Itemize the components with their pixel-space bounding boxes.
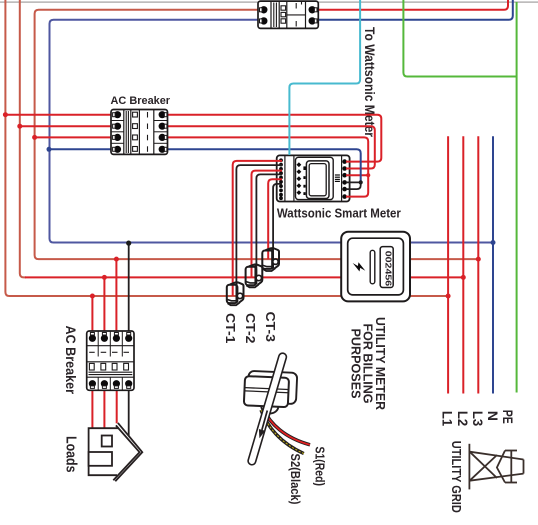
svg-text:To Wattsonic Meter: To Wattsonic Meter <box>362 27 377 138</box>
svg-text:UTILITY GRID: UTILITY GRID <box>449 441 464 513</box>
svg-text:AC Breaker: AC Breaker <box>63 326 78 395</box>
svg-text:CT-2: CT-2 <box>243 313 258 344</box>
svg-text:Wattsonic Smart Meter: Wattsonic Smart Meter <box>277 207 401 221</box>
svg-text:002456: 002456 <box>383 251 393 287</box>
svg-text:AC Breaker: AC Breaker <box>111 95 171 107</box>
svg-text:L2: L2 <box>455 411 470 426</box>
svg-text:CT-1: CT-1 <box>223 313 238 344</box>
svg-text:S2(Black): S2(Black) <box>288 454 303 505</box>
svg-text:CT-3: CT-3 <box>263 312 278 343</box>
svg-text:L1: L1 <box>440 411 455 427</box>
svg-text:S1(Red): S1(Red) <box>312 447 327 487</box>
svg-text:PE: PE <box>500 410 515 424</box>
svg-text:L3: L3 <box>470 411 485 427</box>
svg-text:Loads: Loads <box>63 436 79 473</box>
svg-text:N: N <box>485 411 500 421</box>
svg-text:PURPOSES: PURPOSES <box>348 329 363 399</box>
